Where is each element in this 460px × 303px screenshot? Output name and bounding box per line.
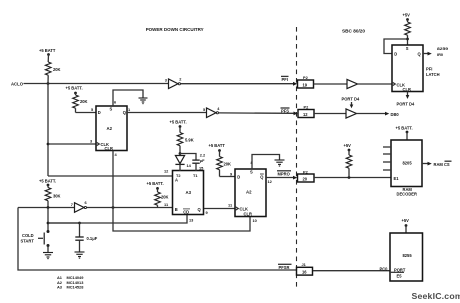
svg-text:SBC 80/20: SBC 80/20 [342,29,366,34]
net label RAM CS [434,161,452,167]
svg-text:20K: 20K [53,67,61,72]
inverter A1b pins 5 to 4 [203,106,220,118]
svg-text:A2: A2 [246,190,252,195]
label PORT D4 below latch [397,102,415,107]
power +5 BATT. for D pullup [66,86,83,95]
wire cold-start node down [47,208,50,231]
wire latch CLR to PORT D4 [406,92,410,100]
wire node to capacitor branch [48,222,81,225]
svg-text:S: S [110,107,113,112]
svg-text:+5V: +5V [403,13,411,18]
wire latch D feedback loop [384,39,408,54]
wire PFSR loop left and bottom [18,208,297,271]
label RAM DECODER [397,187,418,197]
buffer to PFI latch CLK [347,79,358,88]
wire S pin 6 to ground [113,90,143,106]
capacitor 0.1uF [75,223,97,252]
parts list A1 MC14049 [57,275,84,280]
wire A3 Q pin 9 to A2 CLK pin 11 [204,203,235,216]
svg-text:30K: 30K [53,194,61,199]
label PORT D4 enable [342,97,360,109]
inverter A1c pins 7 to 6 [71,200,88,212]
resistor 20K pullup on A2 second D [217,151,231,177]
resistor 30K [45,185,60,208]
capacitor 2.2uF to A3 T1 pin 15 [180,152,206,171]
svg-text:+5 BATT.: +5 BATT. [66,86,83,91]
svg-text:PFI: PFI [282,77,288,82]
svg-text:CLR: CLR [105,146,113,151]
wire buffer to latch [358,83,393,85]
connector P2 pin 20 [298,169,315,182]
wire switch to ground [47,246,49,253]
power +5 BATT. for 5.9K [170,120,187,128]
svg-text:2.2: 2.2 [200,152,206,157]
wire Q pin 1 PFS line [127,107,206,113]
svg-text:LATCH: LATCH [426,72,440,77]
svg-text:START: START [21,239,35,244]
watermark SeekIC.com [412,291,460,301]
ground below capacitor [75,252,85,258]
resistor 20K pullup on ACLO [45,55,60,84]
net label DB0 [391,112,400,117]
diode to A3 T2 pin 14 [175,154,191,172]
power +5 BATT top-left [39,48,56,56]
svg-text:SeekIC.com: SeekIC.com [412,291,460,301]
svg-text:+5 BATT.: +5 BATT. [147,181,164,186]
resistor E1 pullup [346,150,352,178]
ground below switch [43,253,53,259]
wire CLK line to A2 pin 3 [48,139,96,145]
latch PFI LATCH MC14013 [392,45,423,92]
svg-text:20K: 20K [161,195,169,200]
wire J1 to 8255 PC0 [313,270,390,272]
svg-text:19: 19 [303,82,308,87]
decoder 8205 RAM DECODER [391,140,422,187]
wire A-input line to A3 pin 12 [48,169,173,177]
svg-text:PFI: PFI [426,67,432,72]
dashed boundary line [296,27,298,288]
svg-text:P2: P2 [303,75,309,80]
svg-text:RAM CS: RAM CS [434,162,450,167]
net label PFSR [278,264,292,270]
svg-text:CLR: CLR [403,87,411,92]
svg-text:8255: 8255 [403,253,413,258]
svg-text:7: 7 [71,202,73,207]
svg-text:B: B [175,207,178,212]
svg-text:ACLO: ACLO [11,82,24,87]
label SBC 80/20 [342,29,366,34]
buffer DB0 driver [346,109,357,118]
power +5V for 8255 [402,218,410,233]
wire latch Q to interrupt [423,52,432,56]
power +5V latch pullup [403,13,411,21]
svg-text:10: 10 [253,218,257,223]
pin label PC0 [380,266,389,271]
svg-text:IR0: IR0 [437,52,443,57]
connector P2 pin 19 [298,75,314,88]
switch COLD START [21,230,50,247]
svg-text:MC14528: MC14528 [67,285,85,290]
wire connector to 8205 E1 [314,176,391,179]
wire connector to DB0 buffer [314,113,346,115]
wire buffer to DB0 [357,112,390,116]
svg-text:MPRO: MPRO [278,172,291,177]
parts list A3 MC14528 [57,285,84,290]
connector J1 pin 16 [297,262,313,275]
wire D line to A2 pin 5 [76,107,97,113]
svg-text:PFS: PFS [281,109,289,114]
resistor latch pullup [405,20,411,46]
svg-text:P2: P2 [304,105,310,110]
svg-text:+5 BATT: +5 BATT [39,48,56,53]
power +5V for E1 pullup [344,143,352,151]
ground at A2 second S pin [275,160,285,166]
node ACLO [11,82,24,87]
svg-text:8205: 8205 [403,161,413,166]
svg-text:5.9K: 5.9K [185,138,194,143]
wire inverter output to A3 pin 11 [87,202,174,209]
svg-text:0.1μF: 0.1μF [87,236,98,241]
flip-flop A2 first half MC14013 [96,106,127,151]
svg-text:S: S [406,46,409,51]
svg-text:μF: μF [200,158,205,163]
svg-text:S: S [250,170,253,175]
power +5 BATT. for 8205 [396,126,413,141]
svg-text:16: 16 [302,270,307,275]
svg-text:E5: E5 [397,273,403,278]
svg-text:D: D [394,52,397,57]
svg-text:CLR: CLR [244,212,252,217]
svg-text:A3: A3 [186,190,192,195]
net label MPRO [277,171,291,177]
wire PFS to connector [219,112,298,116]
svg-text:E1: E1 [394,176,400,181]
pin 8 label [251,160,254,165]
net label 8259 IR0 [437,46,449,57]
svg-text:PC0: PC0 [380,266,389,271]
svg-text:POWER DOWN CIRCUITRY: POWER DOWN CIRCUITRY [146,27,205,32]
svg-text:A3: A3 [57,285,63,290]
node RC junction [179,152,182,155]
wire 8205 output RAM CS [422,162,432,166]
wire S pin 8 to ground [252,155,280,170]
svg-text:A: A [175,178,178,183]
svg-text:D: D [98,110,101,115]
wire connector to buffer [314,83,348,85]
wire CD line A3 pin 13 [48,215,194,224]
title POWER DOWN CIRCUITRY [146,27,205,32]
svg-text:+5 BATT.: +5 BATT. [396,126,413,131]
svg-text:20K: 20K [224,161,232,166]
svg-text:PORT D4: PORT D4 [342,97,360,102]
svg-text:8259: 8259 [437,46,449,51]
pin 6 label [114,100,117,105]
port 8255 PORT E5 [390,233,423,281]
ground at A2 S pin [139,98,148,104]
power +5 BATT. for B-line pullup [147,181,164,190]
resistor 20K pullup on A2 D input [73,93,88,113]
wire ACLO rail to inverter A1a [24,82,169,85]
resistor 20K pullup on A3 B input [155,188,169,207]
connector P2 pin 12 [298,105,314,118]
wire 8205 address stubs [383,147,391,170]
svg-text:20: 20 [303,176,308,181]
svg-text:COLD: COLD [22,233,34,238]
power +5 BATT. for 30K [39,179,56,187]
svg-text:A2: A2 [107,126,113,131]
svg-text:+5V: +5V [344,143,352,148]
svg-text:20K: 20K [80,99,88,104]
power +5 BATT for A2 second D pullup [209,143,226,152]
wire PFI line to connector P2 [181,82,298,86]
wire A2 pin 4 CLR column [113,151,257,232]
resistor 5.9K [177,127,193,154]
wire MPRO output pin 12 [266,176,297,184]
monostable A3 MC14528 [173,171,204,215]
svg-text:PORT D4: PORT D4 [397,102,415,107]
svg-text:+5V: +5V [402,218,410,223]
svg-text:+5 BATT.: +5 BATT. [39,179,56,184]
svg-text:D: D [237,175,240,180]
flip-flop A2 second half MC14013 [235,169,266,217]
svg-text:PFSR: PFSR [279,265,290,270]
net label PFI [281,76,289,82]
net label PFS [281,108,290,114]
wire reset input line [18,206,75,209]
wire D line to A2 pin 9 [220,172,236,177]
svg-text:DB0: DB0 [391,112,400,117]
svg-text:CD: CD [183,209,189,214]
wire ACLO column down to CLK tap and A3 A-input [47,84,50,177]
svg-text:PORT: PORT [394,267,406,272]
svg-text:+5 BATT.: +5 BATT. [170,120,187,125]
inverter A1a pins 3 to 2 [165,77,183,89]
label PFI LATCH [426,67,440,77]
svg-text:12: 12 [303,112,308,117]
svg-text:DECODER: DECODER [397,191,418,196]
svg-text:+5 BATT: +5 BATT [209,143,226,148]
parts list A2 MC14013 [57,280,84,285]
